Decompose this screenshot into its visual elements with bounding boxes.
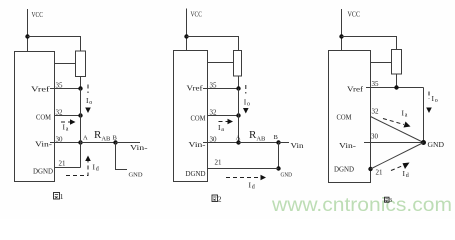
svg-text:Vref: Vref (187, 85, 204, 93)
svg-text:35: 35 (56, 82, 64, 90)
svg-text:Vref: Vref (31, 86, 50, 94)
resistor RAB wire A to B (fig2) (239, 142, 279, 144)
wire resistor bottom to pin35 wire (fig3) (396, 74, 398, 88)
svg-text:Vin-: Vin- (130, 144, 148, 152)
wire VCC to resistor top (fig1) (28, 37, 81, 52)
wire resistor bottom to pin35 node (fig2) (238, 76, 240, 89)
svg-text:Id: Id (403, 169, 410, 179)
current Ia arrow (fig2) (219, 121, 228, 123)
svg-text:B: B (113, 135, 118, 142)
svg-text:Id: Id (93, 163, 100, 173)
junction pin32 (fig1) (78, 113, 82, 117)
svg-text:COM: COM (337, 114, 353, 122)
pin 21 wire (fig2) (208, 168, 279, 170)
wire VCC vertical (fig1) (27, 9, 29, 52)
svg-text:DGND: DGND (33, 168, 53, 176)
wire B to Vin output (fig2) (279, 142, 290, 144)
svg-text:Vin-: Vin- (189, 141, 207, 149)
junction pin35 (fig3) (394, 85, 398, 89)
svg-text:RAB: RAB (249, 129, 266, 143)
wire VCC vertical (fig3) (341, 9, 343, 51)
wire node bus pin35-pin32-A-pin21 (fig1) (80, 89, 82, 168)
svg-text:30: 30 (56, 136, 64, 144)
caption fig3 (385, 197, 393, 204)
svg-text:Vin-: Vin- (339, 142, 357, 150)
wire IC to resistor left (fig1) (55, 63, 76, 65)
IC U1 (fig2) (174, 51, 208, 182)
svg-text:Vref: Vref (347, 86, 364, 94)
svg-text:www.cntronics.com: www.cntronics.com (271, 195, 452, 216)
resistor R1 (fig2) (234, 51, 242, 77)
node A (fig2) (236, 140, 240, 144)
resistor RAB wire A to B (fig1) (81, 142, 116, 144)
current Id arrow (fig1) (66, 161, 88, 176)
pin 32 wire diagonal to GND node (fig3) (371, 117, 424, 143)
svg-text:VCC: VCC (32, 10, 44, 19)
pin 30 wire (fig1) (50, 142, 81, 144)
svg-text:Io: Io (244, 98, 251, 108)
svg-text:32: 32 (210, 109, 218, 117)
node B (fig1) (113, 140, 117, 144)
svg-text:B: B (274, 134, 279, 141)
svg-text:VCC: VCC (348, 10, 361, 19)
wire VCC to resistor top (fig3) (342, 37, 397, 51)
svg-text:Vin-: Vin- (35, 141, 53, 149)
resistor R1 (fig1) (76, 51, 86, 77)
current Ia arrow (fig1) (61, 121, 70, 123)
svg-text:35: 35 (372, 80, 380, 88)
wire VCC to resistor top (fig2) (187, 37, 239, 52)
IC U1 (fig1) (15, 52, 55, 182)
wire B down to GND junction (fig2) (278, 143, 280, 169)
svg-text:GND: GND (428, 141, 445, 149)
svg-text:Io: Io (86, 96, 93, 106)
wire B to GND (fig1) (116, 143, 128, 170)
svg-text:DGND: DGND (186, 170, 206, 178)
pin 30 wire (fig2) (203, 142, 239, 144)
pin 32 wire (fig2) (208, 115, 239, 117)
svg-text:32: 32 (372, 108, 380, 116)
wire VCC vertical (fig2) (186, 9, 188, 52)
svg-text:Io: Io (432, 94, 439, 104)
junction pin21-B (fig2) (276, 166, 280, 170)
svg-text:Id: Id (249, 181, 256, 191)
pin 30 wire to GND node (fig3) (364, 142, 424, 144)
wire B to Vin- output (fig1) (116, 142, 141, 144)
svg-text:GND: GND (129, 172, 143, 179)
svg-text:3: 3 (389, 197, 392, 204)
junction VCC (fig3) (339, 34, 343, 38)
svg-text:21: 21 (59, 160, 67, 168)
svg-text:Ia: Ia (402, 109, 409, 119)
svg-text:Ia: Ia (63, 123, 70, 133)
svg-text:COM: COM (191, 115, 207, 123)
svg-text:Vin: Vin (291, 142, 305, 150)
node A (fig1) (78, 140, 82, 144)
svg-text:VCC: VCC (191, 10, 203, 19)
svg-text:30: 30 (371, 133, 379, 141)
svg-text:A: A (236, 135, 241, 142)
wire pin35 corner down to GND node (fig3) (423, 88, 425, 143)
svg-text:GND: GND (281, 172, 293, 179)
resistor R1 (fig3) (392, 50, 402, 75)
wire IC to resistor left (fig2) (208, 62, 234, 64)
junction VCC (fig1) (25, 34, 29, 38)
junction pin21 (fig3) (368, 167, 372, 171)
caption fig1 (54, 192, 64, 201)
svg-text:1: 1 (60, 192, 64, 201)
svg-text:DGND: DGND (334, 166, 354, 174)
svg-text:35: 35 (210, 82, 218, 90)
caption fig2 (212, 195, 222, 204)
current Io arrow (fig2) (245, 85, 247, 94)
current Id arrow (fig2) (226, 177, 260, 179)
junction pin35 (fig1) (78, 86, 82, 90)
pin 32 wire (fig1) (55, 115, 81, 117)
IC U1 (fig3) (329, 51, 371, 183)
pin 35 wire (fig2) (203, 88, 239, 90)
current Ia arrow (fig3) (383, 119, 404, 125)
junction pin35 (fig2) (236, 86, 240, 90)
pin 35 wire (fig1) (50, 88, 81, 90)
svg-text:RAB: RAB (94, 129, 111, 143)
svg-text:30: 30 (210, 136, 218, 144)
junction VCC (fig2) (184, 34, 188, 38)
pin 21 wire diagonal to GND node (fig3) (371, 143, 424, 170)
svg-text:21: 21 (376, 169, 384, 177)
current Io arrow (fig1) (87, 85, 89, 94)
pin 35 wire (fig3) (366, 87, 424, 89)
current Id arrow (fig3) (391, 166, 402, 171)
svg-text:COM: COM (36, 114, 52, 122)
wire node bus pin35-pin32-A (fig2) (238, 89, 240, 143)
svg-text:Ia: Ia (218, 123, 225, 133)
wire resistor bottom to pin35 node (fig1) (80, 77, 82, 90)
wire IC to resistor left (fig3) (371, 62, 392, 64)
node B (fig2) (276, 140, 280, 144)
node GND (fig3) (421, 140, 426, 145)
svg-text:21: 21 (215, 159, 223, 167)
svg-text:A: A (83, 135, 88, 142)
svg-text:32: 32 (56, 109, 64, 117)
pin 21 wire (fig1) (55, 167, 81, 169)
svg-text:2: 2 (218, 195, 222, 204)
current Io arrow (fig3) (428, 92, 430, 100)
junction pin32 (fig2) (236, 113, 240, 117)
